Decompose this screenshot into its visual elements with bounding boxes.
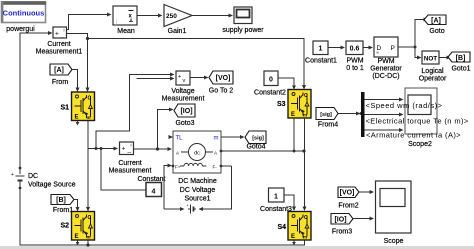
svg-text:[B]: [B]	[56, 197, 66, 204]
svg-text:[sig]: [sig]	[252, 136, 264, 142]
gain block Gain1 value 250	[164, 5, 192, 27]
svg-text:Source1: Source1	[184, 196, 210, 203]
constant Constant2 value 0	[264, 71, 278, 86]
wire: S3 emitter to mid-right node down to S4	[304, 118, 306, 208]
wire: machine m output to Goto4	[221, 136, 241, 138]
wire: DC+ left rail to Current Measurement1	[20, 33, 49, 168]
svg-text:E: E	[75, 115, 79, 121]
wire: tap to display Constant input	[101, 149, 146, 191]
wire: From4 to bus selector	[338, 113, 357, 115]
wire: From1 to S2 gate	[74, 200, 78, 209]
svg-text:S1: S1	[60, 105, 69, 112]
wire: Constant2 to S3 gate	[278, 78, 294, 86]
svg-text:i: i	[131, 143, 132, 148]
svg-text:Goto1: Goto1	[451, 66, 470, 73]
svg-text:Voltage Source: Voltage Source	[28, 182, 76, 189]
from tag From4 [sig]	[316, 108, 338, 120]
svg-text:i: i	[64, 28, 65, 33]
svg-text:+: +	[122, 146, 126, 153]
svg-text:DC Machine: DC Machine	[178, 178, 217, 185]
svg-text:[VO]: [VO]	[216, 75, 231, 82]
wire: S1 emitter to mid-left node down to S2	[87, 121, 89, 209]
wire: CM2 to DC machine armature A-	[134, 148, 169, 150]
svg-text:Current: Current	[118, 160, 141, 167]
svg-text:S2: S2	[60, 223, 69, 230]
svg-text:[VO]: [VO]	[340, 190, 355, 197]
wire: Voltage Measurement minus lead	[137, 78, 172, 80]
junction	[302, 149, 305, 152]
svg-text:Current: Current	[47, 41, 70, 48]
svg-text:DC: DC	[28, 173, 38, 180]
svg-text:A: A	[176, 151, 179, 156]
junction	[360, 112, 363, 115]
wire: Gain1 to supply power scope	[192, 15, 229, 17]
svg-text:Voltage: Voltage	[171, 88, 194, 95]
svg-text:Constant1: Constant1	[305, 58, 337, 65]
svg-text:+: +	[55, 31, 59, 38]
IGBT S1	[72, 92, 95, 121]
svg-text:Go To 2: Go To 2	[209, 88, 233, 95]
svg-text:C: C	[88, 96, 92, 102]
IGBT S4	[288, 212, 311, 241]
svg-text:Mean: Mean	[117, 28, 135, 35]
svg-text:Logical: Logical	[421, 68, 444, 75]
svg-text:m: m	[87, 115, 91, 120]
svg-text:Operator: Operator	[419, 76, 447, 83]
svg-text:_: _	[60, 32, 65, 39]
svg-text:Measurement: Measurement	[109, 168, 152, 175]
svg-text:S4: S4	[277, 224, 286, 231]
svg-text:⌡: ⌡	[115, 18, 119, 26]
bus selector bar	[361, 92, 365, 137]
block PWM Generator (DC-DC)	[374, 37, 398, 57]
junction	[86, 37, 89, 40]
goto tag Goto1 [B]	[448, 52, 470, 62]
svg-text:DC Voltage: DC Voltage	[180, 187, 216, 194]
S2 m port stub	[77, 241, 79, 244]
svg-text:Goto3: Goto3	[175, 120, 194, 127]
junction	[95, 147, 98, 150]
svg-text:Measurement: Measurement	[162, 96, 205, 103]
junction	[100, 147, 103, 150]
wire: From A to S1 gate	[72, 70, 78, 89]
from tag From3 [IO]	[331, 214, 353, 225]
svg-text:NOT: NOT	[424, 56, 437, 63]
from tag From [A]	[50, 64, 72, 75]
DC voltage source1 (field supply) symbol	[187, 203, 197, 214]
constant Constant3 value 1	[269, 188, 285, 202]
svg-text:[IO]: [IO]	[180, 108, 192, 115]
DC voltage source symbol	[11, 167, 25, 190]
svg-text:Scope: Scope	[384, 238, 404, 245]
wire: current signal to Goto3	[158, 110, 170, 150]
goto tag Goto4 [sig]	[245, 131, 266, 144]
wire: Mean to Gain1	[137, 15, 159, 17]
block PWM 0 to 1 value 0.6	[346, 41, 363, 55]
junction	[414, 46, 417, 49]
svg-text:<Armature current ia (A)>: <Armature current ia (A)>	[366, 131, 461, 140]
wire: field source right lead from F-	[202, 166, 232, 209]
svg-text:PWM: PWM	[346, 58, 363, 65]
svg-text:1: 1	[319, 46, 323, 53]
svg-text:From: From	[52, 79, 69, 86]
goto tag Go To 2 [VO]	[209, 71, 233, 84]
current measurement CM1 (Current Measurement1)	[53, 27, 67, 39]
from tag From1 [B]	[51, 195, 74, 205]
svg-text:0: 0	[269, 77, 273, 84]
svg-text:P: P	[391, 45, 395, 52]
junction	[86, 243, 89, 246]
bottom gray band	[0, 246, 474, 249]
wire: PWM Generator P output split to Goto and NOT	[398, 20, 425, 58]
scope Scope2	[405, 88, 437, 134]
IGBT S3	[288, 90, 311, 119]
svg-text:F+: F+	[175, 165, 181, 170]
wire: machine F- to field supply	[221, 165, 232, 167]
svg-text:From2: From2	[338, 203, 358, 210]
wire: machine A+ to mid-right node	[221, 150, 304, 152]
svg-text:Goto: Goto	[429, 28, 444, 35]
wire: DC- bottom rail	[20, 188, 305, 245]
svg-text:From3: From3	[332, 229, 352, 236]
wire: CM1 i output to Mean	[67, 15, 108, 30]
svg-text:Scope2: Scope2	[408, 141, 432, 148]
wire: S3 m port down to armature node	[293, 118, 295, 151]
goto tag Goto [A]	[424, 15, 446, 25]
wire: bus output torque to Scope2	[365, 114, 400, 116]
current measurement CM2 block	[120, 142, 134, 155]
S1 m port stub	[77, 121, 79, 124]
svg-text:[IO]: [IO]	[334, 217, 346, 224]
svg-text:(DC-DC): (DC-DC)	[372, 73, 399, 80]
svg-text:[A]: [A]	[431, 18, 441, 25]
wire: field source to DC machine F+	[164, 166, 169, 210]
svg-text:0.6: 0.6	[350, 46, 360, 53]
S4 m port stub	[293, 241, 295, 244]
wire: armature node to Voltage Measurement plus	[96, 75, 171, 149]
svg-text:Constant2: Constant2	[254, 90, 286, 97]
voltage measurement block	[176, 71, 190, 85]
svg-text:From1: From1	[53, 207, 73, 214]
wire: VM to Go To 2	[190, 77, 205, 79]
wire: bus output current to Scope2	[365, 129, 400, 131]
svg-text:[sig]: [sig]	[320, 112, 332, 118]
scope: supply power	[234, 7, 252, 24]
svg-text:PWM: PWM	[377, 58, 394, 65]
Mean block	[113, 6, 137, 26]
svg-text:m: m	[214, 136, 219, 142]
wire: supply rail CM1 to S1 and S3 collectors	[67, 34, 305, 89]
svg-text:dc: dc	[194, 151, 200, 157]
svg-text:+: +	[11, 172, 14, 178]
wire: From2 to Scope	[359, 191, 370, 193]
svg-text:Gain1: Gain1	[168, 28, 187, 35]
wire: NOT to Goto1	[439, 57, 447, 59]
svg-text:Measurement1: Measurement1	[36, 49, 83, 56]
wire: Constant3 to S4 gate	[284, 195, 294, 208]
wire: field source left lead	[164, 208, 181, 210]
svg-text:0 to 1: 0 to 1	[346, 65, 364, 72]
svg-text:supply power: supply power	[222, 27, 264, 34]
junction: Goto3 tap	[156, 147, 159, 150]
svg-text:[B]: [B]	[456, 55, 466, 62]
machine TL input stub	[169, 136, 171, 138]
from tag From2 [VO]	[338, 187, 359, 198]
constant Constant1 value 1	[313, 41, 328, 55]
svg-text:4: 4	[152, 189, 156, 196]
wire: bus output speed to Scope2	[365, 99, 400, 101]
svg-text:D: D	[377, 45, 382, 52]
svg-text:<Speed wm (rad/s)>: <Speed wm (rad/s)>	[366, 101, 443, 110]
svg-text:Generator: Generator	[370, 66, 402, 73]
svg-text:From4: From4	[318, 122, 338, 129]
IGBT S2	[72, 212, 95, 241]
svg-text:<Electrical torque Te (n m)>: <Electrical torque Te (n m)>	[366, 117, 469, 126]
logical operator NOT block	[422, 51, 439, 64]
svg-text:powergui: powergui	[6, 26, 35, 33]
svg-text:v: v	[183, 78, 186, 84]
svg-text:_: _	[127, 147, 132, 154]
scope Scope	[376, 181, 412, 233]
svg-text:Continuous: Continuous	[3, 9, 45, 18]
svg-text:+: +	[178, 74, 181, 80]
goto tag Goto3 [IO]	[174, 104, 195, 117]
svg-text:TL: TL	[176, 136, 184, 142]
svg-text:F-: F-	[213, 165, 218, 170]
svg-text:250: 250	[166, 13, 177, 20]
wire: From3 to Scope	[353, 218, 370, 220]
wire: Constant1 to PWM 0 to 1	[328, 47, 341, 49]
wire: PWM 0 to 1 to PWM Generator	[363, 47, 369, 49]
svg-text:Constant3: Constant3	[260, 206, 292, 213]
svg-text:S3: S3	[277, 101, 286, 108]
powergui block U-PG	[1, 1, 46, 22]
svg-text:A: A	[214, 151, 217, 156]
svg-text:[A]: [A]	[54, 67, 64, 74]
DC machine block	[172, 131, 223, 173]
wire: mid-left node to Current Measurement	[88, 148, 114, 150]
svg-text:Goto4: Goto4	[246, 144, 265, 151]
svg-text:1: 1	[274, 194, 278, 201]
